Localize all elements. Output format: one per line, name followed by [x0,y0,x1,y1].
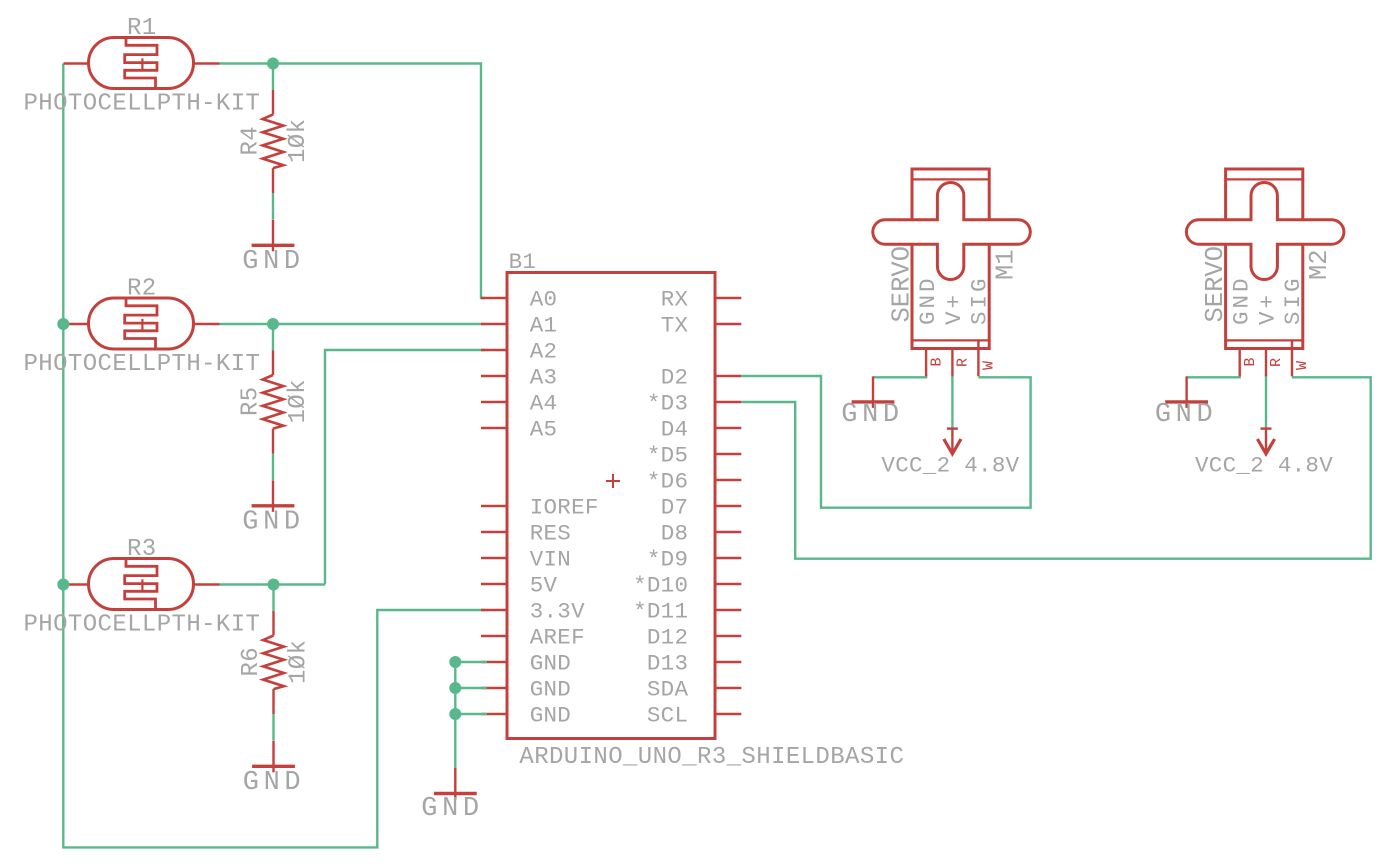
svg-text:R2: R2 [127,276,157,303]
svg-text:*D11: *D11 [633,598,688,624]
svg-text:A3: A3 [530,364,558,390]
svg-text:R: R [1268,358,1285,367]
svg-text:R6: R6 [238,647,265,677]
svg-text:*D6: *D6 [647,468,688,494]
svg-text:W: W [981,361,998,370]
svg-text:RES: RES [530,520,571,546]
svg-text:1Øk: 1Øk [285,119,312,163]
svg-text:VIN: VIN [530,546,571,572]
svg-text:GND: GND [242,247,304,277]
svg-text:GND: GND [530,702,571,728]
svg-text:3.3V: 3.3V [530,598,585,624]
svg-text:V+: V+ [1255,292,1281,325]
svg-text:B1: B1 [509,249,537,275]
svg-text:ARDUINO_UNO_R3_SHIELDBASIC: ARDUINO_UNO_R3_SHIELDBASIC [519,744,904,771]
svg-text:GND: GND [530,650,571,676]
svg-text:GND: GND [242,507,304,537]
svg-text:PHOTOCELLPTH-KIT: PHOTOCELLPTH-KIT [24,351,261,378]
svg-text:AREF: AREF [530,624,585,650]
svg-text:PHOTOCELLPTH-KIT: PHOTOCELLPTH-KIT [24,91,261,118]
svg-text:5V: 5V [530,572,558,598]
svg-text:R5: R5 [238,386,265,416]
svg-text:RX: RX [661,286,689,312]
svg-text:SIG: SIG [966,275,992,325]
svg-text:M1: M1 [991,249,1020,280]
svg-text:D13: D13 [647,650,688,676]
svg-text:SERVO: SERVO [1201,246,1230,323]
svg-text:A4: A4 [530,390,558,416]
svg-text:*D3: *D3 [647,390,688,416]
svg-text:D2: D2 [661,364,689,390]
svg-text:SERVO: SERVO [888,246,917,323]
svg-text:SCL: SCL [647,702,688,728]
svg-text:V+: V+ [941,292,967,325]
svg-text:A1: A1 [530,312,558,338]
svg-text:1Øk: 1Øk [286,640,313,684]
svg-text:GND: GND [841,400,903,430]
svg-text:*D10: *D10 [633,572,688,598]
svg-text:*D9: *D9 [647,546,688,572]
svg-text:R3: R3 [127,536,157,563]
svg-text:SIG: SIG [1280,275,1306,325]
svg-text:GND: GND [915,275,941,325]
svg-text:GND: GND [1155,400,1217,430]
svg-text:M2: M2 [1305,249,1334,280]
svg-text:GND: GND [421,794,483,824]
svg-text:B: B [1242,357,1259,366]
svg-text:GND: GND [243,768,305,798]
svg-text:GND: GND [530,676,571,702]
svg-text:R1: R1 [127,15,157,42]
svg-text:IOREF: IOREF [530,494,599,520]
svg-text:D8: D8 [661,520,689,546]
svg-text:A0: A0 [530,286,558,312]
svg-text:R4: R4 [238,126,265,156]
svg-text:GND: GND [1229,275,1255,325]
svg-text:D4: D4 [661,416,689,442]
svg-text:*D5: *D5 [647,442,688,468]
svg-text:TX: TX [661,312,689,338]
svg-text:PHOTOCELLPTH-KIT: PHOTOCELLPTH-KIT [24,612,261,639]
svg-text:A2: A2 [530,338,558,364]
svg-text:D12: D12 [647,624,688,650]
svg-text:W: W [1294,361,1311,370]
svg-text:A5: A5 [530,416,558,442]
svg-text:1Øk: 1Øk [285,379,312,423]
svg-text:D7: D7 [661,494,689,520]
svg-text:SDA: SDA [647,676,689,702]
svg-text:B: B [928,357,945,366]
svg-text:R: R [955,358,972,367]
